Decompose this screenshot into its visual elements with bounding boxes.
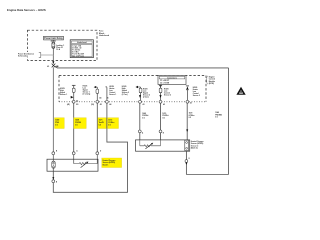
wire W_C [96, 103, 98, 152]
op pin U1-2 HO2S low signal [94, 86, 99, 101]
svg-text:(2 Cav): (2 Cav) [143, 96, 149, 98]
fuse block underhood dashed box [28, 30, 98, 60]
power distribution schematics reference [18, 52, 53, 58]
sensing element sensor2 [140, 140, 161, 149]
relay label box Powertrain Relay [44, 36, 64, 40]
svg-text:(ECM): (ECM) [209, 83, 215, 85]
svg-text:44: 44 [99, 96, 101, 99]
offpage arrow A [236, 87, 245, 95]
svg-text:0.5: 0.5 [189, 117, 191, 119]
svg-text:0.5: 0.5 [108, 124, 110, 126]
wire label 1049 right [215, 111, 222, 118]
fuse detail table box [70, 40, 93, 58]
svg-text:(41): (41) [67, 103, 70, 106]
svg-text:0.5: 0.5 [55, 124, 57, 126]
op pin U1-4 [136, 86, 142, 101]
svg-text:43: 43 [143, 103, 145, 106]
svg-text:Sensor 1: Sensor 1 [60, 94, 67, 96]
pin circle 47 [106, 96, 112, 106]
svg-text:Sensor 1: Sensor 1 [109, 94, 116, 96]
wire W_G with arrow [186, 103, 188, 140]
inline connector B sensor1 [72, 149, 78, 154]
pin text HO2S high signal sensor 2 left [122, 86, 129, 96]
svg-text:B1: B1 [76, 104, 78, 106]
yellow label B4 [108, 118, 119, 129]
pin circle 30 [91, 96, 102, 106]
label Fuse Block - Underhood [99, 31, 110, 37]
wire W_B [73, 103, 75, 152]
yellow label B3 [98, 118, 106, 129]
heater element sensor1 [52, 161, 55, 171]
sensor HO2S-1 box [47, 159, 98, 171]
wire W_E [139, 103, 141, 140]
sensor2 connector block [185, 140, 189, 150]
pin text low reference sensor 2 [164, 88, 171, 96]
inline connector C sensor1 [96, 150, 102, 154]
wire bottom right horizontal [186, 174, 228, 176]
pin text HO2S low signal sensor 2 [143, 88, 150, 98]
svg-text:Underhood: Underhood [77, 42, 87, 44]
label Engine Control Module [206, 76, 216, 85]
wire stubs into sensor1 [53, 155, 97, 164]
svg-text:(2 Cav): (2 Cav) [122, 94, 128, 96]
svg-text:41: 41 [47, 65, 49, 68]
label sensor2 [191, 140, 204, 150]
svg-text:41: 41 [57, 65, 59, 68]
splice S1 [47, 64, 58, 68]
svg-text:(30): (30) [91, 104, 94, 106]
op pin U1-6 heater low control 2 [186, 86, 189, 101]
inline connector A sensor1 [52, 150, 58, 154]
svg-text:Connectors: Connectors [167, 77, 177, 80]
svg-text:(Bank 2): (Bank 2) [191, 148, 198, 150]
fuse value label [56, 44, 64, 51]
svg-text:Bank 1: Bank 1 [103, 165, 109, 167]
svg-text:Engine Data Sensors – HO2S: Engine Data Sensors – HO2S [7, 8, 46, 12]
svg-text:41: 41 [190, 102, 192, 105]
yellow label sensor1 [102, 158, 122, 168]
svg-text:0.5: 0.5 [99, 124, 101, 126]
wire from fuse with arrow [52, 55, 54, 62]
svg-text:Powertrain Relay: Powertrain Relay [44, 37, 63, 40]
inline connector sensor2 B [159, 130, 165, 134]
op pin U1-1 HO2S heater high control [71, 85, 76, 100]
wire label 1670 [162, 113, 168, 119]
svg-text:Sensor 2: Sensor 2 [164, 94, 171, 96]
pin circle 57 [159, 95, 165, 106]
svg-text:45: 45 [100, 103, 102, 106]
wire branch to right [55, 66, 229, 68]
pin circle 42 [186, 100, 192, 104]
wire right vertical [228, 68, 230, 175]
wire label 1669 [142, 113, 148, 119]
svg-text:0.5: 0.5 [215, 117, 217, 119]
connector id box C1 C2 [158, 75, 186, 84]
pin circle 41 [67, 100, 79, 106]
svg-text:C2 = 73 BK: C2 = 73 BK [160, 83, 170, 85]
svg-text:(1 Cavity): (1 Cavity) [83, 93, 91, 96]
fuse F1 symbol [51, 40, 56, 55]
wire sensor2 ground down [185, 151, 187, 174]
inline connector sensor2 bottom [185, 158, 191, 165]
op pin U1-3 heater low control 1 [106, 87, 107, 101]
inline connector bottom left [52, 180, 58, 184]
wire W_A main power down [52, 67, 54, 152]
svg-text:0.5: 0.5 [162, 117, 164, 119]
wire W_F [160, 103, 162, 140]
ECM dashed box [59, 76, 206, 102]
pin text heater low control sensor 2 [193, 87, 200, 97]
svg-text:0.5: 0.5 [75, 124, 77, 126]
yellow label B1 [55, 118, 65, 129]
pin text HO2S high signal sensor 1 [60, 88, 67, 96]
svg-text:42: 42 [163, 103, 165, 106]
sensing element sensor1 [74, 162, 98, 168]
wire W_D to bottom loop [53, 103, 127, 192]
op pin U1-5 [159, 85, 162, 100]
svg-text:44: 44 [109, 103, 111, 106]
wire label 2701 [189, 113, 195, 119]
svg-text:Schematics: Schematics [18, 55, 28, 58]
yellow label B2 [74, 118, 86, 129]
svg-text:45: 45 [107, 96, 109, 99]
sensor HO2S-2 box [136, 140, 190, 151]
pin circle 56 [139, 95, 145, 106]
pin text HO2S low signal sensor 1 [83, 86, 91, 96]
inline connector sensor2 A [138, 130, 144, 134]
svg-text:Underhood: Underhood [99, 35, 110, 37]
svg-text:46: 46 [76, 100, 78, 103]
arrow on bottom left wire [52, 177, 54, 180]
pin text heater low control sensor 1 [109, 86, 116, 96]
svg-text:Sensor 2: Sensor 2 [193, 95, 200, 97]
svg-text:0.5: 0.5 [142, 117, 144, 119]
svg-text:Am 1, DF Lam: Am 1, DF Lam [72, 55, 84, 58]
